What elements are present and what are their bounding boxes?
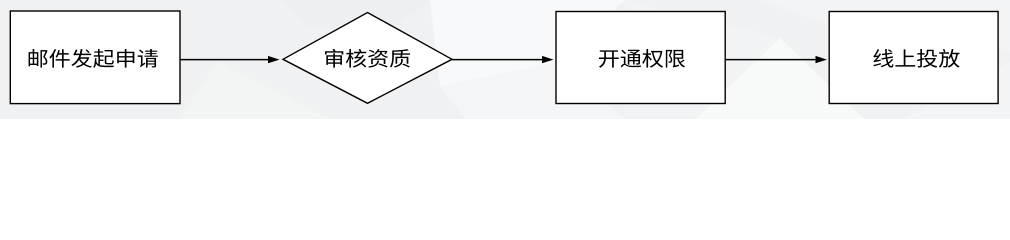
arrowhead into box2 — [542, 56, 554, 63]
label text: 线上投放 — [873, 49, 959, 68]
wire: diamond to box2 — [452, 59, 542, 61]
process box 1: 邮件发起申请 — [10, 11, 180, 104]
arrowhead into diamond — [268, 56, 280, 63]
label text: 邮件发起申请 — [29, 49, 158, 68]
label text: 开通权限 — [599, 49, 685, 68]
decision diamond: 审核资质 — [283, 13, 452, 104]
background facet polygons (subtle low-poly texture) — [180, 0, 1010, 119]
label text: 审核资质 — [325, 49, 410, 68]
process box 2: 开通权限 — [556, 12, 725, 104]
wire: box1 to diamond — [180, 59, 271, 61]
arrowhead into box3 — [816, 56, 828, 63]
background base — [0, 0, 1010, 119]
process box 3: 线上投放 — [829, 12, 998, 104]
wire: box2 to box3 — [725, 59, 816, 61]
